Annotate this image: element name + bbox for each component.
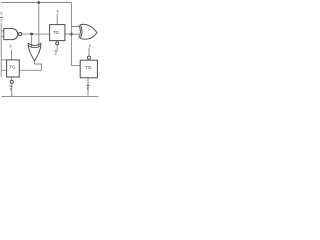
- svg-text:c: c: [0, 11, 3, 16]
- TG box 2: [7, 60, 20, 84]
- label cbar under TG2: [10, 86, 13, 92]
- svg-text:c: c: [55, 51, 58, 56]
- XOR gate pointing down (XOR2): [28, 43, 41, 61]
- svg-text:c: c: [89, 43, 92, 48]
- wire vertical V3 right: [71, 3, 80, 66]
- svg-text:c: c: [87, 86, 90, 91]
- svg-text:TG: TG: [53, 30, 60, 35]
- node junction on top rail: [38, 1, 41, 4]
- wire XOR1 top input: [71, 26, 80, 28]
- wire vertical from top rail to XOR2 input: [38, 3, 40, 47]
- wire TG1 top control: [56, 14, 58, 25]
- NAND gate U1: [4, 29, 22, 40]
- wire NAND output to TG1: [22, 33, 50, 35]
- wire branch down to XOR2 input: [31, 34, 33, 47]
- wire TG2 top control: [11, 50, 13, 60]
- TG box 3: [80, 56, 97, 78]
- svg-text:TG: TG: [85, 65, 92, 70]
- svg-text:c: c: [9, 44, 12, 49]
- bubble above TG3: [87, 56, 90, 59]
- svg-text:c: c: [0, 18, 3, 23]
- svg-text:c: c: [57, 8, 60, 13]
- wire left rail cbar: [0, 23, 2, 77]
- wire NAND input 2: [1, 35, 4, 37]
- wire TG1 bottom control below bubble: [56, 45, 58, 50]
- wire left rail stub to TG2 left port: [1, 69, 6, 71]
- svg-text:c: c: [10, 86, 13, 91]
- node junction dot on wire y34 at x71.4: [70, 33, 73, 36]
- bubble under TG1: [56, 42, 59, 45]
- wire XOR2 output to TG2 right port: [19, 61, 41, 71]
- wire left rail to TG2 top corner: [1, 59, 6, 61]
- wire TG3 top control above bubble: [88, 48, 90, 57]
- bubble under TG2: [10, 80, 13, 83]
- wire bottom rail: [2, 95, 99, 97]
- label cbar under TG3: [87, 85, 90, 91]
- wire TG2 bottom stub to bubble: [11, 77, 13, 80]
- XOR gate right (XOR1): [79, 24, 97, 39]
- label cbar under TG1 bubble: [54, 51, 57, 57]
- wire TG2 bottom control to bottom rail: [11, 84, 13, 97]
- wire NAND input 1: [1, 30, 4, 32]
- node junction dot NAND output branch: [30, 33, 33, 36]
- svg-text:TG: TG: [9, 65, 16, 70]
- wire TG1 output to XOR1: [65, 33, 80, 35]
- label cbar on left edge: [0, 17, 3, 23]
- wire top rail c: [1, 2, 71, 4]
- wire TG3 bottom control to bottom rail: [87, 78, 89, 97]
- TG box 1: [50, 25, 65, 45]
